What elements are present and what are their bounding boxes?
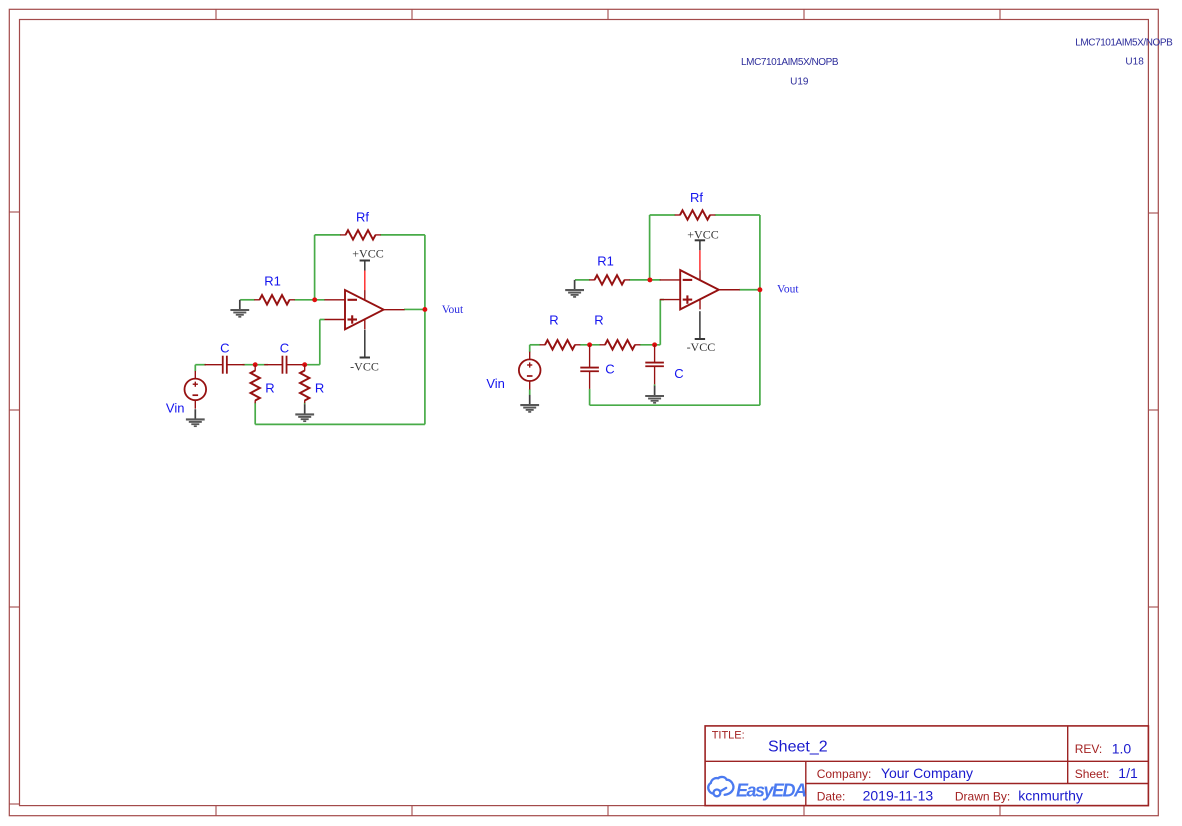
resistor Rf C2 (675, 210, 716, 219)
wire R to node1 C2 (580, 344, 600, 346)
wire R2 to node2 C2 (640, 344, 661, 346)
wire R1 to inverting input C2 (629, 279, 660, 281)
node Vout C2 (757, 287, 762, 292)
wire R1 to inverting input C1 (294, 299, 325, 301)
resistor Rf C1 (340, 230, 381, 239)
wire output vertical C1 (424, 235, 426, 425)
ground at R1 C1 (230, 300, 249, 317)
wire gnd to R1 C1 (240, 299, 255, 301)
ground at R1 C2 (565, 280, 584, 297)
svg-text:R: R (549, 313, 558, 328)
wire Vin corner C2 (529, 345, 531, 353)
svg-text:Rf: Rf (690, 190, 703, 205)
svg-text:U18: U18 (1125, 57, 1144, 68)
+VCC pin bright red C2 (699, 250, 701, 270)
svg-text:R: R (594, 313, 603, 328)
+VCC flag C2 (695, 240, 705, 250)
wire opamp output C1 (404, 308, 425, 310)
svg-text:R: R (265, 380, 274, 395)
resistor R1 C1 (254, 295, 295, 304)
svg-text:Sheet_2: Sheet_2 (768, 739, 828, 756)
svg-text:Vin: Vin (166, 400, 185, 415)
svg-text:Sheet:: Sheet: (1075, 767, 1110, 781)
wire bottom rail C2 (590, 404, 760, 406)
ground at cap2 C2 (645, 386, 664, 403)
wire opamp output C2 (739, 289, 760, 291)
EasyEDA logo cloud icon (708, 777, 733, 796)
wire feedback top-left C1 (315, 234, 341, 236)
svg-text:U19: U19 (790, 77, 809, 88)
wire cap2 to gnd C2 (654, 384, 656, 386)
svg-text:Date:: Date: (817, 790, 846, 804)
node1 C1 (253, 362, 258, 367)
wire feedback top-right C1 (380, 234, 425, 236)
svg-text:Vin: Vin (486, 376, 505, 391)
wire feedback vertical C2 (649, 215, 651, 280)
svg-text:Drawn By:: Drawn By: (955, 790, 1010, 804)
resistor R shunt1 C1 (251, 365, 260, 404)
ground below Vin C1 (186, 409, 205, 426)
node2 C1 (302, 362, 307, 367)
svg-text:Your Company: Your Company (881, 765, 973, 781)
node Vout C1 (422, 307, 427, 312)
node junction R1/feedback C2 (647, 277, 652, 282)
capacitor C1b (264, 356, 304, 374)
wire into plus pin C1 (320, 319, 325, 321)
wire node2 up to noninverting C2 (659, 300, 661, 345)
wire R shunt1 to rail C1 (254, 403, 256, 425)
capacitor C2b (645, 345, 664, 385)
node junction R1/feedback C1 (312, 297, 317, 302)
-VCC flag C1 (360, 330, 370, 358)
wire Vin corner C1 (194, 365, 196, 372)
svg-text:R: R (315, 380, 324, 395)
svg-text:TITLE:: TITLE: (712, 730, 745, 742)
svg-text:C: C (674, 366, 683, 381)
voltage source Vin C1 (185, 371, 207, 409)
resistor R series1 C2 (540, 340, 581, 349)
svg-text:1/1: 1/1 (1118, 765, 1138, 781)
svg-text:Vout: Vout (442, 304, 464, 316)
svg-text:REV:: REV: (1075, 742, 1103, 756)
svg-text:R1: R1 (597, 254, 614, 269)
op-amp U18 triangle (660, 270, 740, 309)
resistor R shunt2 C1 (300, 365, 309, 404)
svg-text:Vout: Vout (777, 284, 799, 296)
resistor R1 C2 (589, 275, 630, 284)
capacitor C2a (580, 345, 599, 389)
wire bottom rail C1 (255, 423, 425, 425)
title block outline (705, 726, 1148, 806)
svg-text:C: C (280, 340, 289, 355)
wire into plus pin C2 (660, 299, 664, 301)
svg-text:1.0: 1.0 (1112, 740, 1132, 756)
ground at R shunt2 C1 (295, 404, 314, 421)
-VCC flag C2 (695, 311, 705, 339)
wire feedback top-left C2 (650, 214, 676, 216)
svg-text:LMC7101AIM5X/NOPB: LMC7101AIM5X/NOPB (1075, 38, 1173, 49)
svg-text:+VCC: +VCC (687, 228, 718, 242)
svg-text:+VCC: +VCC (352, 247, 383, 261)
wire C2 to node2 C1 (302, 364, 320, 366)
svg-text:R1: R1 (264, 273, 281, 288)
wire Vin to R C2 (530, 344, 541, 346)
svg-text:-VCC: -VCC (350, 360, 379, 374)
+VCC pin bright red C1 (364, 271, 366, 291)
svg-text:EasyEDA: EasyEDA (736, 780, 807, 800)
wire feedback top-right C2 (715, 214, 760, 216)
wire gnd to R1 C2 (575, 279, 590, 281)
node1 C2 (587, 342, 592, 347)
svg-text:C: C (605, 362, 614, 377)
capacitor C1a (205, 356, 245, 374)
op-amp U19 triangle (325, 290, 405, 329)
wire cap1 to rail C2 (589, 389, 591, 405)
wire Vin to gnd C2 (529, 389, 531, 395)
svg-text:LMC7101AIM5X/NOPB: LMC7101AIM5X/NOPB (741, 57, 839, 68)
svg-text:2019-11-13: 2019-11-13 (863, 787, 934, 803)
svg-text:-VCC: -VCC (687, 340, 716, 354)
svg-text:kcnmurthy: kcnmurthy (1018, 787, 1083, 803)
svg-text:C: C (220, 340, 229, 355)
wire C to node1 C1 (243, 364, 269, 366)
wire output vertical C2 (759, 215, 761, 405)
ground below Vin C2 (520, 395, 539, 412)
wire feedback vertical C1 (314, 235, 316, 300)
svg-text:Company:: Company: (817, 767, 872, 781)
voltage source Vin C2 (519, 352, 541, 390)
svg-text:Rf: Rf (356, 210, 369, 225)
wire node2 up to noninverting C1 (319, 320, 321, 365)
wire R shunt2 to gnd C1 (304, 403, 306, 405)
wire Vin to C C1 (195, 364, 206, 366)
+VCC flag C1 (360, 261, 370, 271)
node2 C2 (652, 342, 657, 347)
resistor R series2 C2 (600, 340, 641, 349)
